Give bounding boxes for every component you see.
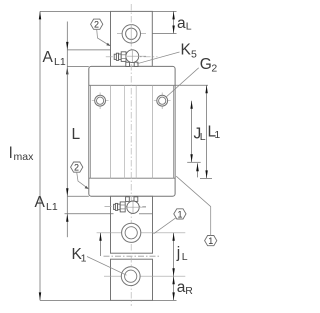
carriage end strip lines [89, 85, 175, 178]
dimension A_L1 top [43, 22, 111, 75]
svg-text:2: 2 [94, 20, 99, 30]
svg-text:2: 2 [211, 62, 217, 74]
svg-text:a: a [177, 15, 186, 32]
label G2 with leader [166, 56, 217, 97]
balloon 1 lower [176, 176, 217, 246]
svg-text:L: L [182, 251, 188, 263]
svg-text:A: A [35, 194, 46, 211]
svg-text:G: G [200, 56, 212, 73]
svg-text:L1: L1 [46, 201, 58, 213]
auxiliary arrow below J_L dash [196, 163, 199, 177]
rail break dash-dot joint line [104, 255, 160, 257]
lower rail mounting hole K1 [104, 267, 185, 286]
svg-text:L: L [186, 21, 192, 33]
label K5 with leader [137, 42, 197, 64]
svg-text:A: A [43, 49, 54, 66]
svg-text:L1: L1 [54, 56, 66, 68]
upper rail piece below carriage [111, 196, 153, 253]
svg-text:L: L [72, 126, 81, 143]
svg-text:1: 1 [178, 209, 183, 219]
label K1 with leader [72, 246, 127, 275]
balloon 1 upper [154, 209, 187, 234]
carriage body outline [89, 66, 175, 196]
carriage inner edge lines [90, 85, 173, 178]
dimension A_L1 bottom [35, 194, 153, 237]
K1 grease nipple axis line [105, 205, 147, 207]
svg-text:1: 1 [208, 236, 213, 246]
svg-text:5: 5 [191, 49, 197, 61]
upper rail mounting hole [97, 223, 186, 242]
top mounting block (rail end above carriage) [111, 11, 153, 66]
svg-text:j: j [176, 245, 180, 262]
svg-text:2: 2 [74, 163, 79, 173]
dimension l_max [9, 11, 111, 300]
main vertical center line [130, 4, 132, 306]
svg-text:K: K [181, 42, 192, 59]
rail silhouette lines through carriage [111, 85, 153, 178]
balloon 2 top [91, 19, 111, 46]
left arrow at upper rail hole [99, 233, 101, 256]
svg-text:l: l [9, 145, 12, 162]
G2 thread hole right [154, 93, 171, 110]
svg-text:1: 1 [81, 253, 87, 265]
dimension j_L [172, 233, 187, 276]
dimension L_1 [175, 85, 220, 178]
top block bore hole [117, 24, 146, 43]
K1 grease nipple (elbow) [114, 197, 146, 214]
dimension a_R [153, 276, 194, 300]
lower rail piece (rail end) [111, 259, 153, 300]
dimension L (carriage length) [66, 50, 80, 196]
dimension a_L [152, 11, 192, 33]
svg-text:1: 1 [214, 129, 220, 141]
balloon 2 bottom [71, 162, 89, 189]
dimension J_L [187, 101, 206, 163]
svg-text:R: R [185, 285, 193, 297]
svg-text:L: L [200, 131, 206, 143]
G2 thread hole left [92, 93, 109, 110]
svg-text:max: max [14, 151, 35, 163]
K5 grease nipple [114, 50, 146, 67]
K5 grease nipple axis line [106, 56, 158, 58]
